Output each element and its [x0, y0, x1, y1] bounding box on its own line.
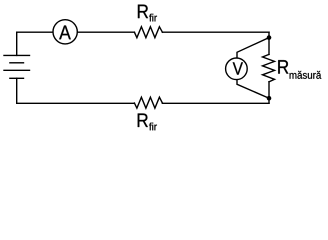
- resistor R_fir bottom zigzag: [134, 97, 162, 108]
- wire: top left horizontal to ammeter: [17, 31, 53, 33]
- voltmeter V1 circle: [226, 58, 248, 80]
- wire: bottom left horizontal battery to R_fir: [17, 102, 135, 104]
- resistor R_masura vertical zigzag: [263, 54, 275, 81]
- battery B1 plate short bottom: [10, 77, 24, 79]
- wire: bottom-left vertical (battery bottom stub): [16, 78, 18, 103]
- ammeter A1 letter A: [59, 26, 71, 40]
- label R_fir (bottom): subscript fir: [149, 123, 157, 131]
- wire: top-left vertical (battery top stub): [16, 32, 18, 55]
- wire: top right horizontal R_fir to corner: [162, 31, 269, 33]
- battery B1 plate short upper: [10, 62, 24, 64]
- wire: voltmeter top branch diagonal: [237, 38, 269, 58]
- label R_masura: R: [278, 60, 288, 73]
- label R_fir (bottom): R: [138, 114, 148, 127]
- wire: voltmeter bottom branch diagonal: [237, 80, 269, 98]
- voltmeter V1 letter V: [233, 62, 243, 74]
- resistor R_fir top zigzag: [134, 27, 162, 38]
- label R_fir (top): R: [138, 5, 148, 18]
- wire: right rail lower (R_masura bottom to corner): [268, 82, 270, 104]
- label R_masura: subscript masura: [290, 71, 322, 79]
- wire: bottom right horizontal R_fir to corner: [162, 102, 269, 104]
- label R_fir (top): subscript fir: [149, 14, 157, 22]
- ammeter A1 circle: [53, 20, 77, 44]
- wire: right rail upper (corner to R_masura top): [268, 32, 270, 54]
- wire: top middle horizontal ammeter to R_fir: [78, 31, 135, 33]
- node: top-right junction: [267, 35, 272, 40]
- battery B1 plate long top: [4, 54, 30, 56]
- battery B1 plate long lower: [4, 69, 30, 71]
- node: bottom-right junction: [267, 96, 272, 101]
